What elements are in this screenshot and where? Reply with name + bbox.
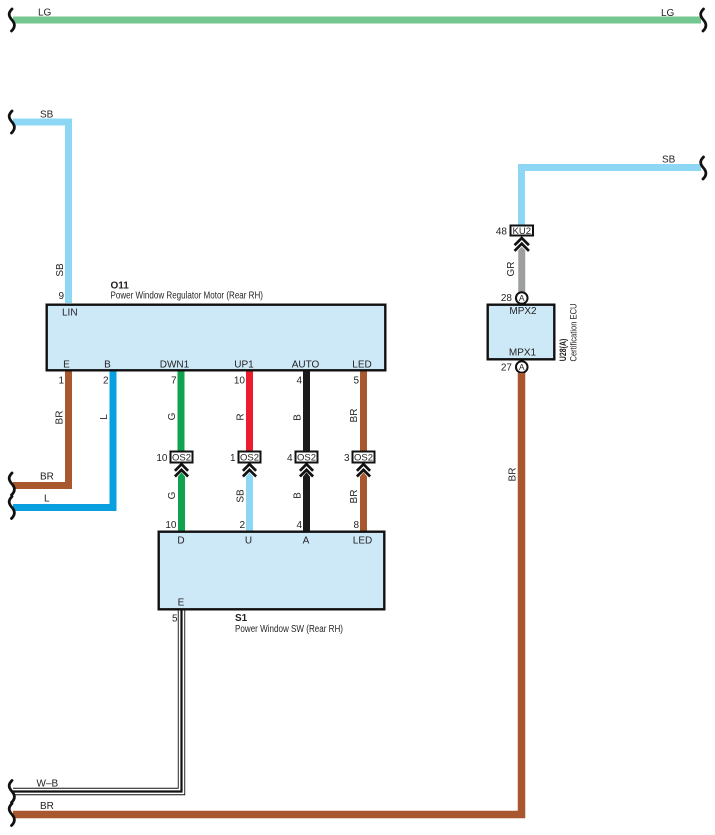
svg-text:LIN: LIN bbox=[62, 308, 78, 319]
connector S1 box bbox=[159, 532, 385, 610]
break symbol right of SB wire bbox=[701, 157, 706, 179]
svg-text:1: 1 bbox=[230, 453, 236, 464]
break symbol left of bottom BR wire bbox=[9, 804, 14, 826]
wire BR long from circle A 27 to bottom left bbox=[13, 373, 522, 815]
wire W-B from S1 pin 5 (E) bbox=[13, 611, 182, 792]
svg-text:27: 27 bbox=[501, 363, 513, 374]
svg-text:1: 1 bbox=[58, 376, 64, 387]
svg-text:BR: BR bbox=[349, 409, 360, 423]
svg-text:A: A bbox=[519, 293, 525, 303]
svg-text:KU2: KU2 bbox=[513, 226, 531, 237]
wire SB right (to KU2) bbox=[522, 168, 702, 226]
svg-text:Power Window Regulator Motor (: Power Window Regulator Motor (Rear RH) bbox=[111, 291, 264, 302]
svg-text:5: 5 bbox=[172, 614, 178, 625]
connector KU2 bbox=[511, 226, 534, 238]
connector OS2 no.1 bbox=[239, 452, 261, 464]
svg-text:B: B bbox=[293, 414, 304, 421]
svg-text:G: G bbox=[167, 491, 178, 499]
break symbol left of BR wire bbox=[9, 473, 14, 495]
chevron under OS2 no.3 bbox=[357, 464, 370, 476]
break symbol left of LG wire bbox=[9, 9, 14, 31]
svg-text:BR: BR bbox=[349, 490, 360, 504]
svg-text:BR: BR bbox=[40, 472, 54, 483]
connector OS2 no.4 bbox=[296, 452, 318, 464]
svg-text:R: R bbox=[236, 413, 247, 420]
wire GR from KU2 to circle A 28 bbox=[518, 247, 525, 293]
svg-text:4: 4 bbox=[287, 453, 293, 464]
wire LG main (top horizontal) bbox=[13, 17, 701, 24]
svg-text:AUTO: AUTO bbox=[292, 360, 320, 371]
svg-text:MPX1: MPX1 bbox=[509, 348, 537, 359]
svg-text:A: A bbox=[519, 362, 525, 372]
svg-text:SB: SB bbox=[55, 263, 66, 277]
svg-text:OS2: OS2 bbox=[172, 453, 191, 464]
chevron under OS2 no.4 bbox=[300, 464, 313, 476]
svg-text:SB: SB bbox=[662, 155, 676, 166]
chevron under OS2 no.10 bbox=[175, 464, 188, 476]
wire G from O11 pin 7 (DWN1) to connector OS2 bbox=[178, 372, 185, 452]
svg-text:2: 2 bbox=[239, 520, 245, 531]
wire B from O11 pin 4 (AUTO) to connector OS2 bbox=[303, 372, 310, 452]
svg-text:GR: GR bbox=[506, 262, 517, 277]
wire G from OS2 to S1 pin 10 (D) bbox=[178, 472, 185, 530]
svg-text:4: 4 bbox=[296, 520, 302, 531]
svg-text:SB: SB bbox=[40, 110, 54, 121]
svg-text:3: 3 bbox=[344, 453, 350, 464]
wire BR from OS2 to S1 pin 8 (LED) bbox=[360, 472, 367, 530]
svg-text:A: A bbox=[303, 536, 310, 547]
node circle A (pin 28) bbox=[516, 292, 528, 304]
svg-text:UP1: UP1 bbox=[234, 360, 254, 371]
svg-text:BR: BR bbox=[508, 468, 519, 482]
svg-text:LED: LED bbox=[353, 536, 372, 547]
svg-text:U28(A): U28(A) bbox=[558, 339, 568, 362]
svg-text:U: U bbox=[245, 536, 252, 547]
wire R from O11 pin 10 (UP1) to connector OS2 bbox=[246, 372, 253, 452]
svg-text:E: E bbox=[178, 598, 185, 609]
svg-text:W–B: W–B bbox=[37, 779, 59, 790]
break symbol left of L wire bbox=[9, 497, 14, 519]
svg-text:4: 4 bbox=[296, 376, 302, 387]
connector OS2 no.10 bbox=[171, 452, 193, 464]
svg-text:G: G bbox=[167, 412, 178, 420]
svg-text:5: 5 bbox=[353, 376, 359, 387]
svg-text:S1: S1 bbox=[235, 613, 248, 624]
svg-text:10: 10 bbox=[165, 520, 177, 531]
svg-text:28: 28 bbox=[501, 293, 513, 304]
wire B from OS2 to S1 pin 4 (A) bbox=[303, 472, 310, 530]
svg-text:10: 10 bbox=[234, 376, 246, 387]
svg-text:E: E bbox=[63, 360, 70, 371]
svg-text:Certification ECU: Certification ECU bbox=[568, 304, 578, 362]
svg-text:B: B bbox=[293, 492, 304, 499]
svg-text:B: B bbox=[104, 360, 111, 371]
chevron under OS2 no.1 bbox=[243, 464, 256, 476]
ECU U28(A) box bbox=[488, 305, 555, 360]
svg-text:LED: LED bbox=[352, 360, 371, 371]
svg-text:2: 2 bbox=[103, 376, 109, 387]
svg-text:BR: BR bbox=[55, 411, 66, 425]
svg-text:LG: LG bbox=[661, 8, 675, 19]
svg-text:7: 7 bbox=[171, 376, 177, 387]
node circle A (pin 27) bbox=[516, 361, 528, 373]
break symbol left of SB wire bbox=[9, 111, 14, 133]
svg-text:OS2: OS2 bbox=[297, 453, 316, 464]
svg-text:DWN1: DWN1 bbox=[160, 360, 190, 371]
svg-text:SB: SB bbox=[236, 489, 247, 503]
svg-text:L: L bbox=[99, 414, 110, 420]
svg-text:D: D bbox=[177, 536, 184, 547]
wire BR from O11 pin 5 (LED) to connector OS2 bbox=[360, 372, 367, 452]
svg-text:MPX2: MPX2 bbox=[509, 306, 537, 317]
wire L from O11 pin 2 (B) bbox=[13, 372, 113, 508]
svg-text:OS2: OS2 bbox=[354, 453, 373, 464]
svg-text:LG: LG bbox=[38, 8, 52, 19]
chevron under KU2 bbox=[515, 238, 529, 251]
break symbol right of LG wire bbox=[701, 9, 706, 31]
svg-text:48: 48 bbox=[496, 227, 508, 238]
wire BR from O11 pin 1 (E) bbox=[13, 372, 69, 486]
svg-text:9: 9 bbox=[58, 291, 64, 302]
svg-text:8: 8 bbox=[353, 520, 359, 531]
break symbol left of W-B wire bbox=[9, 781, 14, 803]
wire SB to O11 pin 9 bbox=[13, 122, 69, 303]
connector OS2 no.3 bbox=[353, 452, 375, 464]
svg-text:L: L bbox=[44, 494, 50, 505]
svg-text:10: 10 bbox=[156, 453, 168, 464]
wire SB from OS2 to S1 pin 2 (U) bbox=[246, 472, 253, 530]
connector O11 box bbox=[47, 305, 386, 371]
svg-text:OS2: OS2 bbox=[240, 453, 259, 464]
svg-text:Power Window SW (Rear RH): Power Window SW (Rear RH) bbox=[235, 624, 343, 635]
svg-text:BR: BR bbox=[40, 801, 54, 812]
